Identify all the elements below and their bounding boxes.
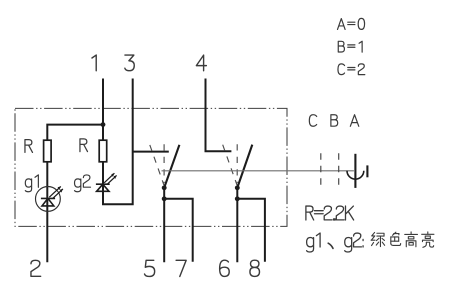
label terminal 5 [145, 260, 155, 276]
wire junction to R2 [102, 125, 104, 141]
label terminal 7 [176, 260, 186, 276]
switch S1 lever [165, 145, 180, 186]
wire R1 to terminal 2 [46, 162, 48, 262]
wire R2 through g2 to terminal 3 [103, 79, 133, 205]
wire S2 to terminal 8 [237, 199, 265, 262]
wire switch S1 fixed contact [133, 151, 169, 153]
label position B [331, 115, 338, 126]
wire S1 to terminal 7 [164, 199, 193, 262]
selector position B dashed line [338, 153, 340, 186]
label A=0 [338, 18, 365, 29]
actuator shaft [354, 154, 356, 188]
switch S1 contact a [162, 185, 167, 190]
mechanical linkage line [162, 170, 354, 172]
enclosure dashed border [15, 108, 287, 226]
actuator handle tick [366, 165, 368, 177]
LED g1 diode [41, 198, 55, 206]
label C=2 [338, 64, 365, 75]
label terminal 6 [220, 260, 230, 276]
wire S2 to terminal 6 [236, 187, 238, 262]
label terminal 1 [92, 55, 96, 71]
resistor R1 [44, 140, 52, 162]
selector position C dashed line [320, 153, 322, 186]
label position C [309, 115, 316, 127]
label R=2.2K [306, 206, 354, 220]
label terminal 4 [196, 55, 206, 71]
label resistor R1 value [25, 140, 33, 153]
switch S2 contact a [235, 185, 240, 190]
wire terminal 4 to S2 fixed contact [206, 79, 232, 152]
label terminal 3 [125, 55, 134, 71]
wire junction to R1 [47, 125, 104, 141]
label g1 g2 green note [307, 232, 434, 252]
wire S1 to terminal 5 [163, 187, 165, 262]
label resistor R2 value [80, 139, 88, 152]
LED g1 envelope circle [36, 187, 61, 212]
switch S2 dashed vertical [236, 144, 238, 183]
switch S2 lever [238, 145, 252, 186]
wire terminal 1 [102, 79, 104, 126]
label terminal 8 [250, 260, 260, 276]
node junction dot [101, 122, 106, 127]
switch S2 contact b [235, 196, 240, 201]
label B=1 [338, 41, 362, 52]
switch S1 contact b [162, 196, 167, 201]
actuator handle arc [347, 171, 364, 179]
switch S1 dashed diagonal [150, 145, 164, 185]
LED g1 light arrows [49, 186, 63, 198]
LED g2 diode [96, 184, 110, 191]
LED g2 light arrows [104, 173, 116, 184]
switch S1 dashed vertical [163, 144, 165, 183]
switch S2 dashed diagonal [223, 145, 237, 185]
label LED g1 [25, 175, 38, 192]
label terminal 2 [31, 260, 41, 276]
resistor R2 [99, 140, 107, 162]
label LED g2 [75, 175, 91, 192]
label position A [350, 115, 358, 127]
